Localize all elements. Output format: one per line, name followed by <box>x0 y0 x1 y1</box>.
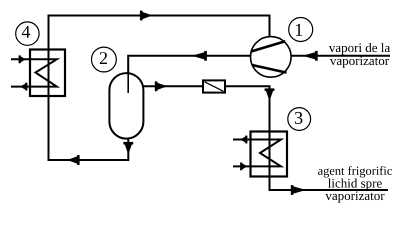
wire: compressor left line to vessel 2 top <box>128 56 251 93</box>
arrow down from vessel 2 bottom <box>123 142 133 155</box>
text: vapori de la <box>329 43 390 55</box>
heat exchanger box 4 <box>30 50 65 97</box>
label circle 2 <box>92 47 117 72</box>
text: vaporizator (bottom right) <box>325 191 384 202</box>
vessel 2 (capsule separator) <box>109 73 143 139</box>
arrow water in HX4 (rightward) <box>19 55 26 63</box>
wire: suction line from vaporizer text to compressor right <box>291 55 390 57</box>
wire: vessel bottom outlet drop <box>127 138 129 161</box>
text: agent frigorific <box>318 166 392 177</box>
arrow water out HX3 (leftward) <box>240 136 247 144</box>
wire: vertical through HX3 <box>269 131 271 177</box>
filter/drier symbol <box>203 80 225 92</box>
heat exchanger box 3 <box>251 132 288 177</box>
text: vaporizator (top right) <box>330 56 389 67</box>
compressor U1 circle <box>250 37 291 78</box>
wire: filter to corner and down into HX3 <box>225 86 270 132</box>
coil zigzag in HX4 with water lines <box>11 59 57 86</box>
wire: discharge top pipe from HX4 top to compressor top corner <box>49 16 270 97</box>
text: lichid spre <box>328 179 382 191</box>
label circle 4 <box>16 22 39 45</box>
arrow on bottom pipe (leftward) <box>67 155 80 165</box>
label circle 3 <box>288 108 311 131</box>
compressor top chord <box>251 41 285 51</box>
arrow outlet to vaporizer (rightward) <box>291 185 306 195</box>
arrow on top pipe (rightward) <box>140 11 153 21</box>
wire: vertical drop into compressor 1 <box>269 15 271 38</box>
vessel 2 internal dip tube <box>127 73 129 93</box>
arrow toward vessel 2 (leftward) <box>192 51 207 61</box>
coil zigzag in HX3 with water lines <box>233 140 281 167</box>
wire: vessel 2 right outlet to filter <box>143 85 203 87</box>
arrow into compressor (leftward) <box>303 51 318 61</box>
label circle 1 <box>289 18 313 42</box>
wire: HX3 bottom outlet to vaporizer (bottom right) <box>270 176 389 190</box>
arrow toward filter (rightward) <box>155 81 168 91</box>
wire: left vertical below HX4 down to bottom pipe <box>49 94 129 160</box>
compressor bottom chord <box>252 65 286 73</box>
arrow water in HX3 (rightward) <box>240 163 247 171</box>
filter diagonal <box>205 82 224 92</box>
arrow down into HX3 <box>265 88 275 101</box>
arrow water out HX4 (leftward) <box>20 83 27 91</box>
